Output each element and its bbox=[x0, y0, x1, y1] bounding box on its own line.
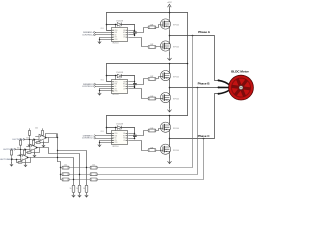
svg-text:CONTROL B: CONTROL B bbox=[82, 86, 95, 88]
svg-text:LIN: LIN bbox=[114, 140, 116, 142]
svg-text:10k: 10k bbox=[92, 164, 95, 166]
resistor R12 1k pulldown bbox=[85, 185, 88, 192]
svg-text:1k: 1k bbox=[83, 188, 85, 190]
wire VS Phase B bbox=[129, 86, 135, 88]
svg-text:VS: VS bbox=[123, 138, 125, 140]
wire SD/VSS to ground Phase C bbox=[100, 140, 113, 142]
wire SD/VSS to ground Phase B bbox=[100, 88, 113, 90]
resistor pull-up comparator 2 bbox=[20, 139, 22, 141]
svg-text:IRF540: IRF540 bbox=[173, 76, 179, 78]
wire VB stub Phase B bbox=[115, 76, 117, 80]
capacitor C1 bootstrap bbox=[134, 25, 136, 32]
svg-text:VS: VS bbox=[123, 34, 125, 36]
wire to low gate Phase A bbox=[156, 46, 161, 48]
transistor Q1H IRF540 high-side bbox=[160, 19, 170, 29]
svg-text:VSS: VSS bbox=[114, 39, 117, 41]
wire HO to gate resistor Phase B bbox=[129, 79, 149, 85]
wire to divider R7 bbox=[58, 151, 87, 186]
svg-text:Phase A: Phase A bbox=[198, 30, 211, 34]
wire VB Phase C bbox=[129, 133, 135, 135]
transistor Q3L IRF540 low-side bbox=[160, 144, 170, 154]
wire to high gate Phase C bbox=[156, 129, 161, 131]
wire midpoint Phase C bbox=[169, 133, 171, 145]
ground power Phase B bbox=[168, 107, 172, 112]
svg-text:IRF540: IRF540 bbox=[173, 98, 179, 100]
wire comparator 3 output bbox=[29, 158, 74, 186]
svg-text:+VCC: +VCC bbox=[167, 2, 173, 4]
ground comparator 1 bbox=[43, 141, 45, 144]
svg-text:VB: VB bbox=[123, 133, 125, 135]
wire VB Phase B bbox=[129, 81, 135, 83]
svg-text:CONTROL A: CONTROL A bbox=[82, 34, 95, 37]
svg-text:LECTURA C: LECTURA C bbox=[0, 158, 12, 161]
resistor R2a 10R high gate bbox=[148, 78, 156, 81]
svg-text:LIN: LIN bbox=[114, 37, 116, 39]
svg-text:U3: U3 bbox=[119, 129, 121, 131]
svg-text:IR2110: IR2110 bbox=[112, 146, 119, 148]
op-amp comparator U5 LM311 bbox=[30, 144, 38, 151]
ground pulldown 2 bbox=[79, 192, 81, 194]
wire feedback A bbox=[98, 36, 193, 168]
resistor bank1 R1s bbox=[62, 166, 69, 169]
wire inverting input comparator 1 bbox=[25, 139, 39, 141]
transistor Q2H IRF540 high-side bbox=[160, 71, 170, 81]
wire VB Phase A bbox=[129, 30, 135, 32]
ground power Phase C bbox=[168, 159, 172, 164]
resistor R10 1k pulldown bbox=[72, 185, 75, 192]
wire midpoint Phase B bbox=[169, 81, 171, 93]
wire source to ground Phase A bbox=[169, 52, 171, 56]
wire midpoint Phase A bbox=[169, 30, 171, 41]
svg-text:BLDC Motor: BLDC Motor bbox=[231, 69, 249, 73]
ground comparator 1 input bbox=[29, 140, 31, 143]
wire to high gate Phase A bbox=[156, 25, 161, 28]
svg-text:CONTROL C: CONTROL C bbox=[82, 138, 95, 140]
capacitor C2 bootstrap bbox=[134, 76, 136, 84]
resistor bank2 R6s bbox=[90, 178, 97, 181]
wire motor lead 2 bbox=[218, 86, 220, 88]
wire VB stub Phase C bbox=[115, 128, 117, 131]
svg-text:VS: VS bbox=[123, 86, 125, 88]
node sensor label 1 bbox=[23, 138, 25, 140]
wire VCC rail Phase C bbox=[107, 115, 188, 117]
svg-text:10k: 10k bbox=[35, 128, 38, 130]
svg-text:IRF540: IRF540 bbox=[173, 47, 179, 49]
resistor R1b 10R low gate bbox=[148, 46, 156, 49]
wire inverting input comparator 2 bbox=[16, 149, 30, 151]
wire VCC rail Phase A bbox=[107, 12, 188, 14]
resistor R11 1k pulldown bbox=[78, 185, 81, 192]
svg-text:LECTURA B: LECTURA B bbox=[3, 148, 15, 151]
svg-text:10k: 10k bbox=[64, 164, 67, 166]
power +VCC bbox=[169, 7, 171, 13]
wire HIN input Phase A bbox=[96, 32, 113, 34]
ground comparator 2 bbox=[34, 150, 36, 154]
node input labels Phase A bbox=[94, 31, 96, 33]
svg-text:10k: 10k bbox=[26, 137, 29, 139]
wire to low gate Phase C bbox=[156, 150, 161, 152]
resistor bank2 R4s bbox=[90, 166, 97, 169]
svg-text:1k: 1k bbox=[76, 188, 78, 190]
op-amp comparator U4 LM311 bbox=[39, 134, 47, 141]
svg-text:1N4148: 1N4148 bbox=[116, 124, 123, 126]
transistor Q2L IRF540 low-side bbox=[160, 93, 170, 103]
wire SD/VSS to ground Phase A bbox=[100, 37, 113, 39]
svg-text:LECTURA A: LECTURA A bbox=[12, 138, 24, 141]
svg-text:U2: U2 bbox=[119, 78, 121, 80]
ground comparator 3 input bbox=[11, 160, 13, 163]
wire VCC rail Phase B bbox=[107, 63, 188, 65]
transistor Q1L IRF540 low-side bbox=[160, 41, 170, 51]
resistor pull-up comparator 1 bbox=[29, 129, 31, 131]
svg-text:VB: VB bbox=[123, 30, 125, 32]
wire Phase A output bbox=[170, 36, 219, 81]
op-amp driver IC U3 IR2110 Phase C bbox=[112, 131, 128, 145]
resistor bank1 R3s bbox=[62, 178, 69, 181]
wire feedback B bbox=[98, 88, 198, 175]
wire LIN input Phase B bbox=[96, 86, 113, 88]
resistor R3a 10R high gate bbox=[148, 129, 156, 132]
wire LIN input Phase A bbox=[96, 34, 113, 36]
svg-text:1k: 1k bbox=[69, 188, 71, 190]
wire motor lead 3 bbox=[218, 93, 220, 95]
node sensor label 2 bbox=[14, 148, 16, 150]
wire HIN input Phase B bbox=[96, 84, 113, 86]
svg-text:VSS: VSS bbox=[114, 142, 117, 144]
wire HO to gate resistor Phase A bbox=[129, 28, 149, 33]
op-amp driver IC U1 IR2110 Phase A bbox=[112, 28, 128, 42]
ground comparator 2 input bbox=[20, 150, 22, 153]
wire comparator 1 output bbox=[46, 134, 57, 138]
svg-text:Phase C: Phase C bbox=[198, 134, 211, 138]
op-amp comparator U6 LM311 bbox=[21, 154, 29, 161]
resistor feedback comparator 1 bbox=[41, 138, 49, 143]
node sensor label 3 bbox=[11, 158, 13, 160]
wire LO to gate resistor Phase C bbox=[129, 141, 149, 151]
BLDC motor M1 bbox=[229, 75, 254, 100]
diode D3 1N4148 bootstrap bbox=[107, 127, 118, 129]
wire VDD drop Phase A bbox=[107, 13, 113, 31]
node input labels Phase B bbox=[94, 83, 96, 85]
svg-text:IRF540: IRF540 bbox=[173, 128, 179, 130]
wire Phase C output bbox=[170, 94, 219, 139]
wire to resistor bank left node bbox=[58, 162, 61, 180]
wire LO to gate resistor Phase B bbox=[129, 89, 149, 99]
wire non-inverting input comparator 1 bbox=[36, 136, 39, 138]
wire LIN input Phase C bbox=[96, 138, 113, 140]
resistor R1a 10R high gate bbox=[148, 26, 156, 29]
svg-text:U1: U1 bbox=[119, 26, 121, 28]
svg-text:IRF540: IRF540 bbox=[173, 25, 179, 27]
resistor bank2 R5s bbox=[90, 173, 97, 176]
svg-text:VB: VB bbox=[123, 81, 125, 83]
svg-text:HIN: HIN bbox=[114, 135, 117, 137]
ground comparator 3 bbox=[25, 160, 27, 163]
svg-text:IR2110: IR2110 bbox=[112, 94, 119, 96]
wire source to ground Phase B bbox=[169, 103, 171, 108]
ground pulldown 1 bbox=[73, 192, 75, 194]
capacitor filter comparator 2 bbox=[33, 139, 35, 141]
wire HIN input Phase C bbox=[96, 135, 113, 137]
ground pulldown 3 bbox=[86, 192, 88, 194]
wire feedback C bbox=[98, 139, 204, 180]
wire drain Phase B bbox=[169, 64, 171, 71]
resistor feedback comparator 3 bbox=[23, 158, 31, 163]
wire VS Phase C bbox=[129, 138, 135, 140]
resistor feedback comparator 2 bbox=[32, 148, 40, 153]
wire VDD drop Phase B bbox=[107, 64, 113, 82]
svg-text:IR2110: IR2110 bbox=[112, 43, 119, 45]
ground logic Phase C bbox=[98, 143, 101, 147]
ground logic Phase A bbox=[98, 39, 101, 43]
wire comparator bus vertical bbox=[57, 134, 59, 162]
wire non-inverting input comparator 2 bbox=[27, 146, 30, 148]
capacitor filter comparator 1 bbox=[42, 129, 44, 131]
wire drain Phase A bbox=[169, 13, 171, 19]
wire VDD drop Phase C bbox=[107, 116, 113, 134]
svg-text:1N4148: 1N4148 bbox=[116, 72, 123, 74]
wire motor lead 1 bbox=[218, 79, 220, 81]
svg-text:VSS: VSS bbox=[114, 91, 117, 93]
wire VS Phase A bbox=[129, 34, 135, 36]
svg-text:Phase B: Phase B bbox=[198, 82, 211, 86]
svg-text:HIN: HIN bbox=[114, 84, 117, 86]
node input labels Phase C bbox=[94, 135, 96, 137]
wire source to ground Phase C bbox=[169, 155, 171, 159]
wire VB stub Phase A bbox=[115, 25, 117, 28]
wire non-inverting input comparator 3 bbox=[18, 155, 21, 157]
wire to high gate Phase B bbox=[156, 77, 161, 79]
resistor bank1 R2s bbox=[62, 173, 69, 176]
resistor R3b 10R low gate bbox=[148, 149, 156, 152]
wire to low gate Phase B bbox=[156, 98, 161, 100]
wire divider bus rows bbox=[61, 167, 91, 169]
svg-text:10k: 10k bbox=[17, 147, 20, 149]
capacitor C3 bootstrap bbox=[134, 128, 136, 135]
diode D1 1N4148 bootstrap bbox=[107, 24, 118, 26]
svg-text:1N4148: 1N4148 bbox=[116, 20, 123, 22]
wire drain Phase C bbox=[169, 116, 171, 123]
wire comparator 2 output bbox=[38, 148, 80, 186]
diode D2 1N4148 bootstrap bbox=[107, 75, 118, 77]
wire HO to gate resistor Phase C bbox=[129, 131, 149, 136]
capacitor filter comparator 3 bbox=[24, 149, 26, 151]
svg-text:IRF540: IRF540 bbox=[173, 150, 179, 152]
ground logic Phase B bbox=[98, 91, 101, 95]
wire LO to gate resistor Phase A bbox=[129, 38, 149, 47]
svg-text:HIN: HIN bbox=[114, 32, 117, 34]
svg-text:LIN: LIN bbox=[114, 88, 116, 90]
wire VCC bus right bbox=[187, 13, 189, 116]
wire Phase B output bbox=[170, 87, 219, 89]
transistor Q3H IRF540 high-side bbox=[160, 122, 170, 132]
ground power Phase A bbox=[168, 56, 172, 61]
resistor R2b 10R low gate bbox=[148, 97, 156, 100]
resistor pull-up comparator 3 bbox=[11, 149, 13, 151]
wire inverting input comparator 3 bbox=[13, 159, 21, 161]
op-amp driver IC U2 IR2110 Phase B bbox=[112, 80, 128, 94]
